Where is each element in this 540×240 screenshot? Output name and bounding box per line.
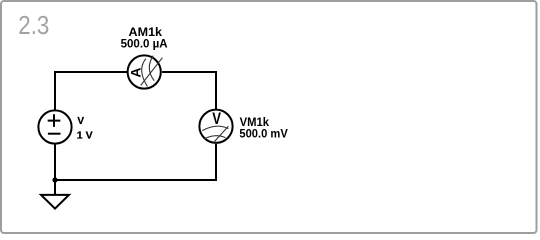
svg-text:500.0 µA: 500.0 µA: [121, 39, 168, 51]
wire from source bottom to junction: [54, 144, 56, 180]
wire from source top to ammeter left: [55, 72, 127, 110]
voltage source V: [38, 110, 71, 143]
wire bottom from junction to voltmeter bottom: [55, 144, 216, 180]
svg-text:VM1k: VM1k: [240, 117, 270, 129]
voltmeter VM1k: [199, 110, 232, 144]
svg-text:AM1k: AM1k: [129, 27, 163, 39]
svg-text:1 V: 1 V: [77, 130, 93, 141]
junction node: [52, 177, 57, 182]
wire ground stub: [54, 180, 56, 195]
ammeter AM1k: [127, 55, 162, 88]
svg-text:V: V: [77, 116, 84, 127]
svg-text:V: V: [212, 110, 221, 128]
ground: [41, 195, 69, 209]
svg-text:A: A: [127, 68, 143, 78]
wire from ammeter right to voltmeter top: [162, 72, 216, 109]
svg-text:500.0 mV: 500.0 mV: [239, 129, 288, 141]
svg-text:2.3: 2.3: [18, 12, 49, 40]
